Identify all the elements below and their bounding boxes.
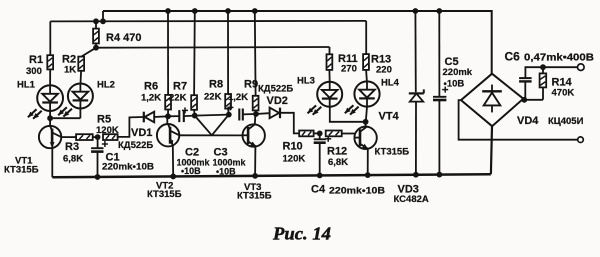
wire C2 left lead bbox=[168, 115, 179, 117]
bridge rectifier VD4 bbox=[461, 74, 523, 127]
svg-text:R7: R7 bbox=[173, 81, 187, 93]
node VD4 right corner junction bbox=[521, 97, 527, 103]
wire cross coupling C3 to VT2 base bbox=[212, 115, 229, 136]
wire C5 to rail bbox=[438, 100, 440, 175]
node C2 R7 junction bbox=[192, 113, 198, 119]
capacitor C1 bbox=[97, 137, 99, 148]
node C3 R8 junction bbox=[226, 112, 232, 118]
wire R3 to node bbox=[93, 136, 98, 138]
svg-text:R4 470: R4 470 bbox=[106, 32, 141, 44]
svg-text:R12: R12 bbox=[327, 146, 347, 158]
svg-text:•10В: •10В bbox=[181, 166, 201, 176]
node VD3 rail junction bbox=[413, 172, 419, 178]
wire R12 to VT4 base bbox=[342, 133, 355, 135]
capacitor C3 bbox=[239, 109, 243, 121]
wire C4 to rail bbox=[319, 143, 321, 176]
wire VD2 to R10 bbox=[281, 113, 300, 134]
node VT2 emitter rail junction bbox=[170, 174, 176, 180]
svg-text:R3: R3 bbox=[65, 141, 79, 153]
resistor R8 bbox=[225, 94, 231, 109]
wire R6 bottom lead bbox=[167, 110, 169, 117]
wire HL1 cathode to node bbox=[49, 111, 51, 118]
svg-text:220mk: 220mk bbox=[443, 67, 473, 78]
wire R11 top lead bbox=[329, 47, 331, 54]
wire R7 top lead bbox=[193, 11, 196, 95]
wire R1 to HL1 bbox=[49, 69, 51, 85]
wire R6 top lead bbox=[167, 11, 169, 95]
wire R13 top lead bbox=[365, 21, 367, 54]
wire C6 to VD4 right corner bbox=[525, 81, 543, 99]
wire R10 to node bbox=[314, 132, 320, 134]
wire VT1 base to R3 bbox=[61, 136, 76, 138]
wire HL3 cathode down bbox=[330, 107, 366, 122]
resistor R5 bbox=[103, 134, 118, 140]
wire R2 top diagonal lead bbox=[81, 48, 96, 57]
wire VT1 collector lead bbox=[49, 118, 51, 126]
resistor R14 bbox=[540, 73, 547, 87]
capacitor C2 bbox=[179, 110, 184, 122]
resistor R1 bbox=[47, 55, 53, 69]
resistor R7 bbox=[191, 95, 197, 110]
plus C2 bbox=[182, 107, 188, 113]
svg-text:КД522Б: КД522Б bbox=[258, 84, 293, 95]
plus C4 bbox=[325, 136, 331, 142]
svg-text:КТ315Б: КТ315Б bbox=[375, 147, 410, 158]
wire C5 top lead bbox=[438, 11, 440, 97]
svg-text:КТ315Б: КТ315Б bbox=[4, 165, 39, 176]
wire R1 top lead bbox=[49, 21, 51, 55]
svg-text:Рис. 14: Рис. 14 bbox=[272, 224, 331, 244]
resistor R4 bbox=[93, 29, 99, 44]
svg-text:1,2K: 1,2K bbox=[141, 93, 161, 104]
wire HL2 cathode down bbox=[79, 109, 81, 119]
wire R9 top lead bbox=[254, 11, 257, 96]
node R3 R5 C1 junction bbox=[95, 134, 101, 140]
svg-text:VD4: VD4 bbox=[517, 115, 539, 127]
resistor R3 bbox=[76, 134, 93, 140]
wire R8 top lead bbox=[227, 11, 229, 94]
wire R4 leads bbox=[95, 21, 97, 47]
svg-text:22K: 22K bbox=[204, 92, 222, 103]
wire VD3 top lead bbox=[414, 11, 416, 92]
svg-text:300: 300 bbox=[26, 66, 42, 77]
svg-text:КТ315Б: КТ315Б bbox=[237, 191, 272, 202]
plus C1 bbox=[102, 141, 108, 147]
svg-text:C4: C4 bbox=[311, 184, 326, 196]
diode VD2 bbox=[256, 112, 269, 115]
wire R8 bottom lead bbox=[227, 109, 230, 115]
node R9 top rail junction bbox=[252, 8, 258, 14]
svg-text:VD2: VD2 bbox=[267, 95, 288, 107]
svg-text:R10: R10 bbox=[283, 141, 303, 153]
node C5 top rail junction bbox=[436, 8, 442, 14]
svg-text:6,8K: 6,8K bbox=[328, 157, 348, 168]
transistor VT3 bbox=[243, 124, 265, 146]
svg-text:HL4: HL4 bbox=[381, 78, 400, 89]
wire VT2 collector lead bbox=[166, 116, 168, 124]
svg-text:R8: R8 bbox=[209, 79, 223, 91]
svg-text:22K: 22K bbox=[169, 93, 187, 104]
wire VT3 collector lead bbox=[254, 114, 257, 124]
wire VT4 collector lead bbox=[365, 122, 367, 127]
led HL2 bbox=[58, 84, 93, 117]
wire R2 to HL2 bbox=[80, 71, 83, 84]
svg-text:1,2K: 1,2K bbox=[228, 92, 248, 103]
wire LED cathodes join bbox=[50, 117, 80, 119]
node C1 rail junction bbox=[95, 174, 101, 180]
terminal lower AC input bbox=[578, 137, 584, 143]
node C5 rail junction bbox=[437, 172, 443, 178]
capacitor C5 bbox=[433, 97, 446, 100]
plus C5 bbox=[442, 87, 448, 93]
wire VD1 to VT2 collector node bbox=[154, 115, 168, 118]
led HL3 bbox=[308, 82, 343, 115]
svg-text:R6: R6 bbox=[144, 81, 158, 93]
wire R14 bottom lead bbox=[542, 87, 544, 99]
wire R14 top lead bbox=[542, 67, 544, 73]
resistor R12 bbox=[326, 131, 342, 137]
led HL4 bbox=[345, 81, 380, 114]
svg-text:270: 270 bbox=[341, 64, 357, 75]
node R6 top rail junction bbox=[165, 8, 171, 14]
svg-text:КТ315Б: КТ315Б bbox=[147, 189, 182, 200]
node rail junction bbox=[100, 18, 106, 24]
wire C2 to R7 node bbox=[184, 115, 195, 118]
diode inside VD4 bbox=[482, 85, 502, 113]
node C4 rail junction bbox=[317, 173, 323, 179]
node VD1 R6 C2 junction bbox=[165, 113, 171, 119]
svg-text:•10В: •10В bbox=[444, 79, 465, 90]
transistor VT4 bbox=[354, 127, 376, 149]
resistor R10 bbox=[299, 131, 313, 137]
resistor R6 bbox=[165, 95, 171, 110]
svg-text:VD1: VD1 bbox=[131, 127, 152, 139]
svg-text:КЦ405И: КЦ405И bbox=[548, 116, 584, 127]
node R4 top junction bbox=[93, 18, 99, 24]
wire R13 to HL4 bbox=[365, 70, 368, 82]
svg-text:C6: C6 bbox=[505, 50, 521, 64]
svg-text:470K: 470K bbox=[552, 88, 575, 99]
resistor R11 bbox=[327, 54, 333, 70]
wire VD3 to rail bbox=[415, 102, 417, 175]
wire R11 to HL3 bbox=[328, 70, 330, 82]
wire second rail to R13 bbox=[50, 20, 366, 23]
wire top supply rail bbox=[103, 11, 492, 74]
wire C1 to rail bbox=[97, 152, 99, 177]
svg-text:1K: 1K bbox=[64, 65, 76, 76]
node VT4 emitter rail junction bbox=[365, 172, 371, 178]
svg-text:220mk•10В: 220mk•10В bbox=[329, 186, 385, 197]
wire C3 to R9 node bbox=[243, 113, 256, 115]
diode VD1 bbox=[144, 112, 154, 123]
wire VT4 emitter to rail bbox=[367, 149, 369, 175]
node R7 top rail junction bbox=[192, 8, 198, 14]
wire VT1 emitter down bbox=[51, 147, 53, 177]
wire R7 node to R8 node bbox=[195, 115, 229, 116]
svg-text:VT4: VT4 bbox=[379, 111, 400, 123]
svg-text:КД522Б: КД522Б bbox=[118, 140, 153, 151]
resistor R9 bbox=[253, 96, 259, 111]
svg-text:КС482А: КС482А bbox=[394, 194, 429, 205]
wire link top rail to second rail bbox=[102, 11, 104, 21]
node VT1 collector junction bbox=[47, 115, 53, 121]
svg-text:HL1: HL1 bbox=[17, 80, 36, 91]
plus C3 bbox=[227, 104, 233, 110]
wire bottom rail bbox=[52, 174, 491, 177]
node VT3 emitter rail junction bbox=[252, 173, 258, 179]
terminal upper AC input bbox=[578, 64, 585, 71]
wire VD4 bottom to rail bbox=[491, 126, 492, 174]
wire R9 bottom lead bbox=[255, 110, 257, 114]
svg-text:120K: 120K bbox=[283, 154, 306, 165]
svg-text:6,8K: 6,8K bbox=[63, 154, 83, 165]
node R4 bottom junction bbox=[93, 45, 99, 51]
svg-text:0,47mk•400В: 0,47mk•400В bbox=[524, 53, 594, 64]
wire VT2 VT3 base line bbox=[179, 134, 242, 136]
wire R7 bottom lead bbox=[193, 110, 196, 116]
led HL1 bbox=[28, 85, 63, 119]
wire VD4 left corner to lower terminal bbox=[459, 100, 578, 140]
capacitor C6 bbox=[519, 78, 532, 81]
node VT4 collector junction bbox=[363, 119, 369, 125]
wire cross coupling C2 to VT3 base bbox=[195, 116, 212, 136]
wire upper terminal to C6 R14 bbox=[525, 67, 577, 78]
transistor VT2 bbox=[157, 124, 179, 146]
svg-text:R9: R9 bbox=[244, 79, 258, 91]
svg-text:HL3: HL3 bbox=[297, 76, 315, 87]
resistor R2 bbox=[78, 57, 84, 71]
wire third rail to R11 bbox=[96, 46, 330, 49]
svg-text:220: 220 bbox=[376, 64, 392, 75]
resistor R13 bbox=[363, 54, 369, 70]
svg-text:R5: R5 bbox=[97, 114, 111, 126]
svg-text:120K: 120K bbox=[96, 125, 119, 136]
wire VT3 emitter to rail bbox=[254, 146, 256, 175]
svg-text:220mk•10В: 220mk•10В bbox=[102, 162, 155, 172]
wire HL4 cathode down bbox=[366, 107, 367, 122]
transistor VT1 bbox=[39, 126, 61, 148]
svg-text:HL2: HL2 bbox=[97, 80, 115, 91]
wire VT2 emitter to rail bbox=[172, 146, 174, 177]
zener diode VD3 bbox=[409, 89, 424, 101]
svg-text:R1: R1 bbox=[29, 54, 43, 66]
node R14 top junction bbox=[540, 64, 546, 70]
node R8 top rail junction bbox=[225, 8, 231, 14]
capacitor C4 bbox=[319, 133, 321, 139]
wire R5 to VD1 bbox=[118, 117, 144, 137]
node R9 VT3 VD2 junction bbox=[253, 111, 259, 117]
node R10 R12 C4 junction bbox=[317, 131, 323, 137]
node VD3 top rail junction bbox=[413, 8, 419, 14]
